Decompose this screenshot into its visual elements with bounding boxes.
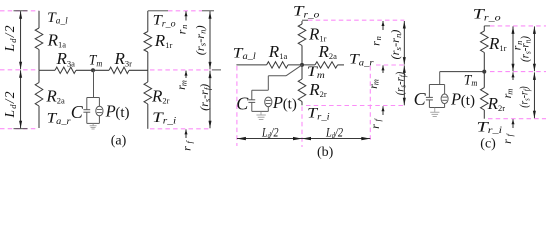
svg-text:(b): (b) (317, 145, 334, 159)
svg-text:C: C (236, 94, 249, 114)
label R2a (45, 86, 65, 105)
label C (c) (414, 89, 427, 109)
label Tm (c) (464, 72, 478, 88)
source P(t) (a) (96, 98, 103, 124)
label R1a (47, 30, 67, 49)
resistor R2a (b) (315, 62, 338, 68)
label Ld/2 left (b) (261, 124, 279, 140)
construction line vertical left (b) (236, 66, 238, 146)
tick bottom-left (a) (14, 128, 28, 130)
label R1r (b) (308, 25, 327, 44)
wire center vertical (b) (301, 21, 303, 105)
node Ta_l (47, 10, 68, 26)
svg-text:(rs-rf): (rs-rf) (519, 86, 532, 108)
construction line top (c) (490, 25, 546, 27)
dimension (rs-rn) (c) (533, 26, 536, 71)
node Ta_r (47, 110, 72, 126)
dimension rf arrow (c) (512, 119, 515, 128)
wire horizontal main (a) (39, 69, 148, 71)
svg-text:(t): (t) (283, 96, 297, 112)
dimension (rs-rf) (b) (403, 65, 406, 105)
construction line top (b) (308, 19, 404, 21)
dimension (rs-rf) (c) (533, 72, 536, 118)
label R1r (c) (488, 34, 507, 53)
label Tm (a) (89, 53, 103, 69)
node Ta_r (b) (349, 52, 374, 68)
svg-text:(a): (a) (111, 133, 127, 148)
construction line bottom (b) (306, 105, 404, 107)
wire right vertical (a) (147, 11, 149, 129)
source P(t) (c) (441, 85, 448, 108)
svg-text:(rs-rf): (rs-rf) (395, 72, 408, 96)
rails of C/P block (a) (87, 98, 100, 124)
svg-text:Ld/2: Ld/2 (325, 124, 343, 140)
dimension (rs-rn) (b) (403, 21, 406, 65)
wire horizontal (b) (236, 64, 344, 66)
node Tr_o (c) (473, 7, 502, 23)
label rm (c) (500, 89, 515, 99)
resistor R2r (b) (298, 79, 306, 102)
construction line vertical center (b) (301, 107, 303, 148)
ground (c) (430, 108, 439, 117)
construction line top-right (a) (168, 10, 202, 12)
rails of C/P block (c) (429, 85, 444, 108)
label R3r (114, 49, 133, 68)
label rn (c) (509, 41, 524, 51)
tick top (c) (484, 25, 490, 27)
node Tr_i (b) (307, 106, 330, 122)
dimension rf arrow (a) (185, 129, 188, 138)
wire to thermal mass (b) (268, 65, 302, 90)
wire center vertical (c) (483, 26, 485, 119)
svg-text:P: P (272, 93, 283, 112)
resistor R2r (c) (481, 88, 489, 110)
tick top-left (a) (14, 10, 28, 12)
resistor R1a (35, 28, 43, 50)
tick top (b) (302, 19, 308, 21)
node Tm (a) (91, 68, 95, 72)
node Tm (c) (482, 70, 486, 74)
label rn (a) (174, 25, 189, 35)
node Tr_o (a) (153, 13, 177, 29)
label rf (c) (500, 132, 515, 143)
label R3a (56, 49, 76, 68)
dimension (rs-rn) (a) (209, 11, 212, 69)
label Ld/2 lower (a) (2, 91, 18, 118)
label (rs-rn) (b) (390, 29, 403, 59)
dimension rn arrow (a) (185, 11, 188, 20)
label rn (b) (368, 36, 383, 46)
ground (a) (90, 123, 97, 129)
dimension rn (c) (512, 26, 515, 71)
rails of C/P block (b) (252, 90, 268, 111)
node Ta_l (b) (233, 45, 257, 61)
construction line middle (c) (490, 71, 546, 73)
tick middle-right col2 (a) (212, 69, 221, 71)
label R2a (b) (318, 42, 338, 61)
node Tr_o (b) (293, 4, 320, 20)
dimension rm arrow (b) (382, 65, 385, 73)
label P(t) (b) (272, 93, 297, 112)
label Ld/2 upper (a) (2, 25, 18, 52)
dimension rm arrow (a) (185, 71, 188, 78)
svg-text:(rs-rf): (rs-rf) (199, 84, 212, 111)
construction line bottom-right (a) (150, 128, 211, 130)
svg-text:(rs-rn): (rs-rn) (520, 36, 533, 62)
label Tm (b) (307, 64, 326, 80)
svg-text:C: C (71, 102, 84, 122)
caption (b) (317, 145, 334, 160)
capacitor C (c) (426, 85, 433, 108)
label R1r (a) (154, 31, 173, 50)
resistor R3r (109, 67, 129, 73)
svg-text:P: P (450, 90, 461, 109)
label R1a (b) (268, 42, 288, 61)
dimension rf arrow (b) (382, 106, 385, 115)
construction line middle-right (b) (376, 64, 406, 66)
svg-text:C: C (414, 89, 427, 109)
resistor R2a (35, 83, 43, 107)
label rm (b) (366, 79, 381, 89)
svg-text:(rs-rn): (rs-rn) (390, 29, 403, 59)
label C (b) (236, 94, 249, 114)
label (rs-rf) (b) (395, 72, 408, 96)
resistor R1r (a) (144, 32, 152, 53)
caption (a) (111, 133, 127, 148)
dimension Ld/2 left (b) (237, 137, 302, 140)
label rm (a) (174, 80, 189, 90)
dimension rm arrow (c) (512, 72, 515, 80)
svg-text:(rs-rn): (rs-rn) (195, 25, 208, 55)
construction line top-left (a) (0, 10, 39, 12)
capacitor C (a) (83, 98, 90, 124)
construction line middle-right (a) (150, 69, 212, 71)
svg-text:P: P (105, 102, 116, 121)
construction line bottom-left (a) (0, 128, 39, 130)
svg-text:(c): (c) (480, 137, 496, 152)
source P(t) (b) (265, 97, 272, 111)
label rf (b) (368, 117, 383, 128)
construction line bottom (c) (488, 118, 546, 120)
resistor R2r (a) (144, 82, 152, 104)
label P(t) (c) (450, 90, 475, 109)
resistor R1r (c) (481, 31, 489, 53)
label P(t) (a) (105, 102, 130, 121)
dimension Ld/2 right (b) (302, 137, 370, 140)
label R2r (c) (487, 94, 506, 113)
node Tr_i (c) (477, 119, 503, 135)
resistor R3a (55, 67, 76, 73)
ground (b) (256, 111, 265, 119)
label R2r (a) (151, 86, 170, 105)
resistor R1r (b) (298, 24, 306, 46)
svg-text:(t): (t) (115, 105, 129, 121)
tick top-right col2 (a) (202, 10, 214, 12)
capacitor C (b) (248, 90, 255, 111)
svg-text:(t): (t) (461, 93, 475, 109)
dimension Ld/2 lower (a) (19, 70, 22, 128)
node Tm (b) (300, 63, 304, 67)
svg-text:Ld/2: Ld/2 (261, 124, 279, 140)
node Tr_i (a) (152, 110, 177, 126)
dimension Ld/2 upper (a) (19, 11, 22, 69)
label (rs-rn) (a) (195, 25, 208, 55)
wire to thermal mass (c) (439, 72, 441, 85)
tick top-right (a) (148, 10, 168, 12)
wire left vertical (a) (38, 11, 40, 128)
label (rs-rf) (c) (519, 86, 532, 108)
construction line vertical right (b) (369, 66, 371, 143)
label (rs-rf) (a) (199, 84, 212, 111)
label C (a) (71, 102, 84, 122)
dimension rn arrow (b) (382, 21, 385, 30)
wire to thermal mass (a) (93, 70, 95, 97)
label rf (a) (179, 139, 194, 150)
label R2r (b) (308, 80, 327, 99)
construction line middle-left (a) (0, 69, 39, 71)
resistor R1a (b) (267, 62, 288, 68)
wire horizontal (c) (440, 71, 485, 73)
label Ld/2 right (b) (325, 124, 343, 140)
dimension (rs-rf) (a) (209, 71, 212, 129)
caption (c) (480, 137, 496, 152)
label (rs-rn) (c) (520, 36, 533, 62)
